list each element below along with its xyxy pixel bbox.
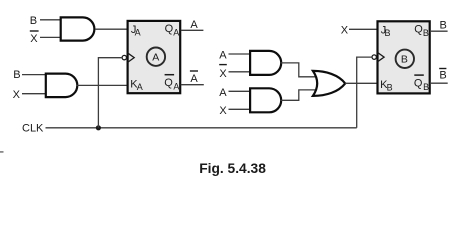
- node A input label (middle top): [219, 49, 227, 61]
- caption Fig. 5.4.38: [199, 161, 266, 176]
- clock bubble U2: [372, 55, 376, 59]
- wire X to AND4: [229, 108, 252, 110]
- wire QA output: [181, 29, 204, 31]
- AND gate G2 (inputs B, X): [46, 74, 78, 98]
- wire CLK main run: [46, 127, 357, 129]
- node X input label (middle bottom): [219, 105, 227, 117]
- node A input label (middle bottom): [219, 87, 227, 99]
- OR gate G5: [313, 71, 345, 96]
- svg-text:A: A: [190, 19, 198, 31]
- svg-text:A: A: [173, 28, 179, 38]
- svg-text:B: B: [440, 20, 447, 32]
- svg-text:X: X: [341, 25, 349, 37]
- wire G4 output to OR (steps up): [280, 90, 318, 100]
- wire B to AND1: [40, 19, 62, 21]
- wire QA-bar output: [181, 84, 204, 86]
- wire X-bar to AND3: [229, 71, 252, 73]
- op label circle B: [396, 50, 414, 68]
- svg-text:A: A: [137, 82, 143, 92]
- op label circle A: [147, 48, 165, 66]
- node X input label (bottom-left): [13, 89, 21, 101]
- svg-text:Q: Q: [414, 77, 423, 89]
- svg-text:X: X: [219, 68, 227, 80]
- edge artifact: [0, 151, 4, 153]
- pin KB label: [380, 79, 393, 92]
- svg-text:CLK: CLK: [22, 123, 44, 135]
- wire X-bar to AND1: [40, 36, 62, 38]
- svg-text:B: B: [13, 69, 20, 81]
- node A-bar output label: [190, 71, 199, 85]
- svg-text:B: B: [423, 28, 429, 38]
- node CLK input label: [22, 123, 44, 135]
- wire A to AND3: [229, 53, 252, 55]
- node B input label (bottom-left): [13, 69, 20, 81]
- wire G1 output to JA: [95, 28, 128, 30]
- pin QB label: [414, 24, 429, 39]
- wire QB-bar output: [430, 82, 448, 84]
- wire X to AND2: [22, 93, 47, 95]
- AND gate G4 (inputs A, X): [250, 88, 281, 112]
- node X-bar input label (middle): [219, 65, 227, 80]
- svg-text:B: B: [30, 15, 37, 27]
- junction dot on CLK: [96, 125, 101, 130]
- flip-flop U2 box (B): [378, 21, 430, 93]
- svg-text:B: B: [401, 54, 408, 66]
- svg-text:A: A: [219, 87, 227, 99]
- svg-text:Q: Q: [164, 77, 173, 89]
- svg-text:A: A: [152, 51, 159, 63]
- pin KA label: [130, 79, 143, 92]
- wire QB output: [430, 30, 448, 32]
- svg-text:A: A: [173, 81, 179, 91]
- wire CLK riser to U1 clock: [98, 58, 122, 128]
- svg-text:A: A: [135, 28, 141, 38]
- wire G2 output to KA (crosses clock riser): [77, 84, 129, 86]
- node X-bar input label (top-left): [30, 31, 39, 45]
- svg-text:Fig. 5.4.38: Fig. 5.4.38: [199, 161, 266, 176]
- node B input label (top-left): [30, 15, 37, 27]
- AND gate G3 (inputs A, X-bar): [250, 51, 281, 75]
- wire G5 output to KB (crosses clock riser): [345, 82, 378, 84]
- pin JA label: [131, 24, 141, 38]
- svg-text:B: B: [385, 28, 391, 38]
- AND gate G1 (inputs B, X-bar): [61, 17, 95, 40]
- svg-text:X: X: [13, 89, 21, 101]
- pin QA-bar label: [164, 75, 179, 92]
- wire G3 output to OR (steps down): [280, 63, 318, 77]
- flip-flop U1 box (A): [128, 21, 181, 93]
- clock edge triangle U1: [127, 53, 134, 63]
- node B-bar output label: [439, 69, 447, 82]
- svg-text:B: B: [439, 69, 446, 81]
- wire CLK riser to U2 clock: [357, 57, 372, 128]
- clock edge triangle U2: [377, 52, 384, 62]
- pin QA label: [165, 23, 180, 38]
- node B output label: [440, 20, 447, 32]
- clock bubble U1: [122, 55, 126, 59]
- node A output label: [190, 19, 198, 31]
- svg-text:B: B: [387, 82, 393, 92]
- svg-text:X: X: [30, 33, 38, 45]
- wire X to JB: [349, 28, 378, 30]
- pin QB-bar label: [414, 75, 429, 92]
- node X input label (to JB): [341, 25, 349, 37]
- wire B to AND2: [22, 74, 47, 76]
- wire A to AND4: [229, 90, 252, 92]
- pin JB label: [381, 24, 391, 38]
- svg-text:B: B: [423, 82, 429, 92]
- svg-text:A: A: [190, 73, 198, 85]
- svg-text:A: A: [219, 49, 227, 61]
- svg-text:X: X: [219, 105, 227, 117]
